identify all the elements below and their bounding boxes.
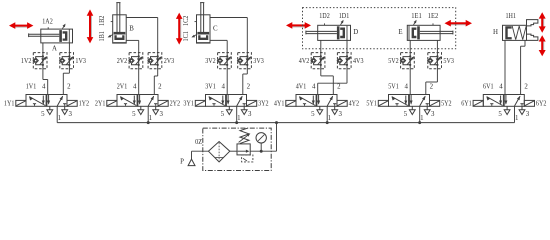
junction node at 2V1 port 1: [147, 121, 150, 124]
svg-text:1E2: 1E2: [428, 13, 439, 20]
svg-text:5: 5: [221, 111, 225, 118]
flow control valve 5V3: [428, 52, 455, 69]
svg-text:5V3: 5V3: [443, 58, 454, 65]
svg-text:2V2: 2V2: [117, 58, 128, 65]
wire: cylinder E rod port to 5V3 to valve 5V1 port 2: [436, 40, 438, 52]
svg-text:3V2: 3V2: [205, 58, 216, 65]
red motion arrow (cylinder D, horizontal): [286, 22, 311, 29]
wire: valve 6V1 port 1 drop: [514, 106, 516, 122]
gripper cylinder H (single-acting with spring): [493, 13, 538, 40]
svg-text:1V2: 1V2: [21, 58, 32, 65]
wire: gripper H piston port to valve 6V1 port 4: [504, 40, 506, 94]
pressure regulator: [237, 128, 253, 162]
svg-text:1V3: 1V3: [75, 58, 86, 65]
exhaust port 3 of 3V1: [241, 106, 247, 114]
svg-text:B: B: [129, 26, 134, 33]
svg-text:2: 2: [337, 84, 341, 91]
wire: valve 3V1 port 1 drop: [236, 106, 238, 122]
svg-text:2: 2: [67, 84, 71, 91]
solenoid 2Y1: [95, 100, 117, 107]
svg-text:6Y2: 6Y2: [536, 101, 547, 108]
svg-text:4: 4: [404, 84, 408, 91]
red motion arrow (cylinder A, horizontal): [9, 22, 33, 29]
wire: [68, 52, 70, 69]
flow control valve 5V2: [388, 52, 414, 69]
svg-text:1C2: 1C2: [183, 15, 190, 26]
junction node riser/bus: [275, 121, 278, 124]
exhaust port 3 of 5V1: [424, 106, 430, 114]
exhaust port 5 of 2V1: [138, 106, 144, 114]
svg-text:4V1: 4V1: [296, 84, 307, 91]
air service unit 0Z frame: [203, 128, 271, 170]
svg-text:5: 5: [41, 111, 45, 118]
cylinder B (vertical double-acting): [99, 3, 134, 44]
svg-text:3Y1: 3Y1: [183, 101, 194, 108]
wire: gripper H rear port to valve 6V1 port 2: [524, 40, 526, 46]
svg-text:A: A: [52, 45, 57, 52]
svg-text:3: 3: [248, 111, 252, 118]
wire: [226, 52, 228, 69]
svg-text:1D1: 1D1: [339, 13, 350, 20]
svg-text:4: 4: [499, 84, 503, 91]
svg-text:2Y2: 2Y2: [170, 101, 181, 108]
solenoid 2Y2: [158, 100, 181, 107]
svg-text:3: 3: [526, 111, 530, 118]
svg-text:2V3: 2V3: [164, 58, 175, 65]
svg-text:3V1: 3V1: [205, 84, 216, 91]
wire: cylinder D rod port to 4V2 to valve 4V1 port 2: [320, 40, 322, 52]
cylinder E (horizontal, rod to right): [398, 13, 453, 40]
wire: [138, 52, 140, 69]
svg-text:5: 5: [311, 111, 315, 118]
junction node at gauge: [260, 150, 263, 153]
directional valve 6V1 (5/2 way): [483, 95, 524, 107]
exhaust port 3 of 1V1: [62, 106, 68, 114]
svg-text:3: 3: [431, 111, 435, 118]
flow control valve 2V3: [148, 52, 175, 69]
wire: valve 2V1 port 1 drop: [147, 106, 149, 122]
svg-text:1C1: 1C1: [183, 31, 190, 42]
svg-text:5: 5: [404, 111, 408, 118]
svg-text:4: 4: [221, 84, 225, 91]
svg-text:2: 2: [158, 84, 162, 91]
svg-text:5V1: 5V1: [388, 84, 399, 91]
svg-text:H: H: [493, 29, 498, 36]
flow control valve 3V2: [205, 52, 231, 69]
wire: [42, 52, 44, 69]
wire: [246, 52, 248, 69]
exhaust port 3 of 2V1: [153, 106, 159, 114]
svg-text:C: C: [213, 26, 218, 33]
svg-text:1: 1: [149, 115, 153, 122]
exhaust port 3 of 4V1: [332, 106, 338, 114]
svg-text:3: 3: [68, 111, 72, 118]
svg-text:2: 2: [247, 84, 251, 91]
wire: [409, 52, 411, 69]
svg-text:4Y2: 4Y2: [349, 101, 360, 108]
svg-text:1A2: 1A2: [42, 18, 53, 25]
svg-text:2Y1: 2Y1: [95, 101, 106, 108]
solenoid 4Y2: [337, 100, 360, 107]
wire: main pressure bus line: [57, 122, 514, 124]
flow control valve 4V3: [337, 52, 364, 69]
wire: cylinder E cap port to 5V2 to valve 5V1 port 4: [409, 40, 411, 52]
svg-text:3V3: 3V3: [253, 58, 264, 65]
exhaust port 5 of 6V1: [504, 106, 510, 114]
directional valve 5V1 (5/2 way): [389, 95, 430, 107]
wire: valve 4V1 port 1 drop: [326, 106, 328, 122]
flow control valve 3V3: [238, 52, 265, 69]
cylinder 1A2 (A, horizontal double-acting): [29, 18, 73, 52]
cylinder C (vertical double-acting): [183, 3, 218, 44]
compressed air source P: [180, 151, 208, 165]
junction node at 3V1 port 1: [235, 121, 238, 124]
flow control valve 4V2: [299, 52, 325, 69]
junction node at 4V1 port 1: [326, 121, 329, 124]
directional valve 4V1 (5/2 way): [296, 95, 337, 107]
solenoid 6Y2: [524, 100, 547, 107]
filter with water separator: [208, 142, 229, 162]
solenoid 5Y1: [366, 100, 388, 107]
red motion arrow (cylinder B, vertical): [87, 9, 94, 43]
svg-text:D: D: [353, 29, 358, 36]
red motion arrow (cylinder C, vertical): [176, 13, 183, 45]
exhaust port 5 of 3V1: [226, 106, 232, 114]
wire: [436, 52, 438, 69]
svg-text:1E1: 1E1: [411, 13, 422, 20]
wire: valve 5V1 port 1 drop: [419, 106, 421, 122]
flow control valve 2V2: [117, 52, 143, 69]
svg-text:1: 1: [237, 115, 241, 122]
svg-text:1: 1: [515, 115, 519, 122]
exhaust port 3 of 6V1: [519, 106, 525, 114]
dashed station frame around cylinders D and E: [303, 8, 456, 49]
directional valve 2V1 (5/2 way): [117, 95, 158, 107]
svg-text:4: 4: [42, 84, 46, 91]
svg-text:E: E: [398, 29, 402, 36]
svg-text:6V1: 6V1: [483, 84, 494, 91]
svg-text:4V3: 4V3: [353, 58, 364, 65]
svg-text:5V2: 5V2: [388, 58, 399, 65]
directional valve 1V1 (5/2 way): [26, 95, 67, 107]
flow control valve 1V2: [21, 52, 47, 69]
exhaust port 5 of 1V1: [47, 106, 53, 114]
wire: cylinder B cap port to 2V2 to valve 2V1 port 4: [126, 39, 139, 41]
svg-text:1V1: 1V1: [26, 84, 37, 91]
wire: cylinder D cap port to 4V3 to valve 4V1 port 4: [346, 40, 348, 52]
svg-text:5: 5: [132, 111, 136, 118]
svg-text:1Y1: 1Y1: [4, 101, 15, 108]
svg-text:2V1: 2V1: [117, 84, 128, 91]
exhaust port 5 of 4V1: [317, 106, 323, 114]
wire: cylinder C rod port to 3V3 to valve 3V1 port 2: [210, 17, 247, 19]
wire: [157, 52, 159, 69]
svg-text:4: 4: [312, 84, 316, 91]
wire: valve 1V1 port 1 drop: [56, 106, 58, 122]
wire: [192, 150, 209, 152]
wire: [230, 150, 237, 152]
svg-text:4Y1: 4Y1: [274, 101, 285, 108]
svg-text:5Y1: 5Y1: [366, 101, 377, 108]
svg-text:1: 1: [328, 115, 332, 122]
flow control valve 1V3: [60, 52, 87, 69]
solenoid 4Y1: [274, 100, 296, 107]
solenoid 6Y1: [461, 100, 483, 107]
wire: [346, 52, 348, 69]
wire: cylinder C cap port to 3V2 to valve 3V1 port 4: [210, 39, 227, 41]
red motion arrow (gripper H, upper): [539, 12, 546, 32]
directional valve 3V1 (5/2 way): [206, 95, 247, 107]
red motion arrow (cylinder E, horizontal): [445, 20, 473, 27]
svg-text:5Y2: 5Y2: [441, 101, 452, 108]
svg-text:6Y1: 6Y1: [461, 101, 472, 108]
solenoid 5Y2: [430, 100, 453, 107]
pressure gauge: [256, 133, 266, 152]
wire: cylinder A rod port to 1V3 to valve 1V1 port 2: [68, 43, 70, 53]
svg-text:3: 3: [159, 111, 163, 118]
svg-text:1B1: 1B1: [99, 31, 106, 42]
wire: riser from service unit to bus: [276, 123, 278, 152]
solenoid 3Y2: [247, 100, 270, 107]
junction node at 5V1 port 1: [418, 121, 421, 124]
svg-text:0Z: 0Z: [195, 139, 202, 146]
svg-text:1H1: 1H1: [505, 13, 516, 20]
svg-text:P: P: [180, 159, 184, 166]
svg-text:3Y2: 3Y2: [258, 101, 269, 108]
svg-text:2: 2: [430, 84, 434, 91]
solenoid 1Y2: [67, 100, 90, 107]
svg-text:5: 5: [498, 111, 502, 118]
wire: cylinder A cap port to 1V2 to valve 1V1 port 4: [42, 43, 44, 53]
solenoid 1Y1: [4, 100, 26, 107]
solenoid 3Y1: [183, 100, 205, 107]
exhaust port 5 of 5V1: [409, 106, 415, 114]
svg-text:1Y2: 1Y2: [79, 101, 90, 108]
wire: cylinder B rod port to 2V3 to valve 2V1 port 2: [126, 17, 158, 19]
svg-text:4: 4: [133, 84, 137, 91]
wire: [320, 52, 322, 69]
svg-text:1B2: 1B2: [99, 15, 106, 26]
svg-text:1D2: 1D2: [319, 13, 330, 20]
svg-text:3: 3: [338, 111, 342, 118]
svg-text:1: 1: [420, 115, 424, 122]
cylinder D (horizontal, rod to left): [306, 13, 358, 40]
svg-text:1: 1: [58, 115, 62, 122]
svg-text:2: 2: [524, 84, 528, 91]
red motion arrow (gripper H, lower): [539, 35, 546, 56]
wire: [250, 150, 276, 152]
svg-text:4V2: 4V2: [299, 58, 310, 65]
